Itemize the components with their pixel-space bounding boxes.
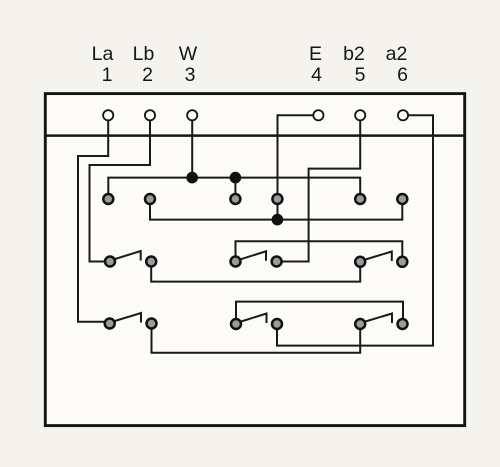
svg-text:2: 2 — [142, 64, 153, 86]
contact dot row1 c4 — [272, 194, 282, 204]
pin number 5 — [355, 64, 366, 86]
svg-text:W: W — [179, 43, 198, 65]
terminal circle 5 (b2) — [355, 110, 365, 120]
enclosure box — [45, 94, 464, 426]
pin number 2 — [142, 64, 153, 86]
svg-text:3: 3 — [185, 64, 196, 86]
pin number 1 — [102, 64, 113, 86]
switch S1 blade (middle-left) — [114, 251, 141, 261]
contact dot row1 c3 — [230, 194, 240, 204]
terminal label La — [92, 43, 114, 65]
terminal circle 1 (La) — [103, 110, 113, 120]
wire a2 terminal 6 to lower-center switch right contact — [277, 115, 433, 345]
switch S6 blade (lower-right) — [364, 314, 392, 324]
pin number 4 — [311, 64, 322, 86]
switch S3 blade (middle-right) — [364, 252, 392, 262]
terminal label E — [309, 43, 322, 65]
junction dot at W column — [186, 172, 198, 184]
svg-text:Lb: Lb — [133, 43, 155, 65]
switch S1 left contact — [105, 257, 115, 267]
contact dot row1 c2 — [145, 194, 155, 204]
svg-text:a2: a2 — [386, 43, 408, 65]
pin number 6 — [397, 64, 408, 86]
switch S5 left contact — [231, 319, 241, 329]
svg-text:b2: b2 — [343, 43, 365, 65]
terminal circle 2 (Lb) — [145, 110, 155, 120]
terminal label W — [179, 43, 198, 65]
switch S3 right contact — [397, 257, 407, 267]
wire La terminal 1 to lower-left switch left contact — [78, 115, 110, 321]
pin number 3 — [185, 64, 196, 86]
wire middle-left switch right contact to middle-right switch left contact — [151, 262, 360, 282]
terminal label Lb — [133, 43, 155, 65]
contact dot row1 c6 — [397, 194, 407, 204]
junction dot at E column — [272, 214, 284, 226]
terminal circle 3 (W) — [187, 110, 197, 120]
terminal label a2 — [386, 43, 408, 65]
svg-text:E: E — [309, 43, 322, 65]
terminal label b2 — [343, 43, 365, 65]
wire Lb terminal 2 to middle-left switch left contact — [90, 115, 151, 261]
terminal strip line — [44, 134, 466, 137]
switch S3 left contact — [355, 257, 365, 267]
contact dot row1 c5 — [355, 194, 365, 204]
switch S6 right contact — [398, 319, 408, 329]
wire E terminal 4 left and down to junction — [278, 115, 319, 219]
switch S2 blade (middle-center) — [239, 251, 266, 260]
switch S6 left contact — [355, 319, 365, 329]
wire W terminal 3 down to junction on node row — [191, 115, 193, 177]
wire b2 terminal 5 to middle-center switch right contact — [277, 115, 361, 261]
wire lower bus linking contacts 2 and 6 — [150, 199, 402, 220]
wire lower-left switch right contact to lower-right switch left contact — [152, 324, 361, 353]
switch S5 right contact — [272, 319, 282, 329]
junction dot at contact-3 riser — [230, 172, 242, 184]
switch S5 blade (lower-center) — [240, 314, 267, 324]
wire lower-center switch left contact to lower-right switch right contact — [236, 302, 403, 324]
wire middle-center switch left contact to middle-right switch right contact — [236, 241, 403, 262]
switch S4 blade (lower-left) — [113, 313, 141, 323]
svg-text:5: 5 — [355, 64, 366, 86]
contact dot row1 c1 — [103, 194, 113, 204]
svg-text:4: 4 — [311, 64, 322, 86]
terminal circle 6 (a2) — [398, 110, 408, 120]
svg-text:1: 1 — [102, 64, 113, 86]
switch S1 right contact — [146, 257, 156, 267]
switch S2 left contact — [231, 257, 241, 267]
switch S4 left contact — [105, 319, 115, 329]
svg-text:La: La — [92, 43, 114, 65]
svg-text:6: 6 — [397, 64, 408, 86]
terminal circle 4 (E) — [313, 110, 323, 120]
switch S2 right contact — [272, 257, 282, 267]
wire node row bus linking contacts 1 and 5 — [108, 178, 360, 199]
wire riser from contact 3 to bus junction — [234, 178, 236, 199]
switch S4 right contact — [147, 319, 157, 329]
